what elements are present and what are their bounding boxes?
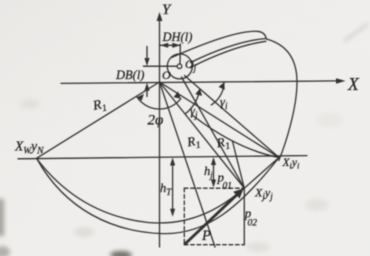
left edge smudge [0,199,4,236]
R1 line O to Xw [37,82,160,158]
dimension DH extension line [179,44,181,64]
Y axis [159,16,161,247]
svg-text:02: 02 [248,219,258,229]
wire: horizontal sheet line y=158 from Xw to Xi [18,156,307,159]
dimension DH arrows [160,44,180,46]
wire Xj to Xi chord [244,158,279,189]
line L1 from O steep down [160,82,216,247]
crescent upper arc [37,159,244,223]
node Oj small circle [177,64,182,69]
svg-text:X: X [347,74,360,94]
svg-text:P: P [201,228,211,244]
bottom smudge [110,251,132,256]
blade face lower line [191,41,266,67]
scan streak top-right [344,24,368,41]
svg-text:DH(l): DH(l) [162,30,193,44]
dimension DB leader line [144,65,177,67]
R1 line O to Xj [160,82,245,188]
angle gamma_j arc [185,89,200,114]
svg-text:DB(l): DB(l) [115,68,144,82]
vector P thick arrow [185,194,238,244]
bottom-left corner smudge [0,246,10,256]
vector p02 vertical line [243,188,245,245]
dashed parallelogram bottom edge [184,244,244,246]
R1 line Oj to Xj [182,77,245,188]
svg-text:O: O [162,68,171,82]
dashed parallelogram top edge [184,187,244,189]
dimension DB lower arrow [146,89,148,97]
blade top edge [172,31,267,57]
line O to Xi [160,82,280,158]
crescent lower arc [37,158,279,234]
guide curve to Xi [192,115,279,158]
dimension DB upper arrow [146,47,148,61]
line Oj to Xi [185,76,280,158]
dimension hT [172,163,174,213]
angle gamma_i arc [211,83,224,105]
angle 2phi arc [137,97,181,109]
blade face upper line [191,39,267,63]
blade tip circle arc R1 [267,39,298,161]
svg-text:2φ: 2φ [148,113,164,129]
p01 guide line into Xj [232,141,244,188]
tool centre circle Oj [167,54,192,79]
dimension hj [213,161,215,184]
svg-text:01: 01 [223,182,233,192]
dashed parallelogram left edge [183,188,185,245]
X axis [61,81,338,84]
